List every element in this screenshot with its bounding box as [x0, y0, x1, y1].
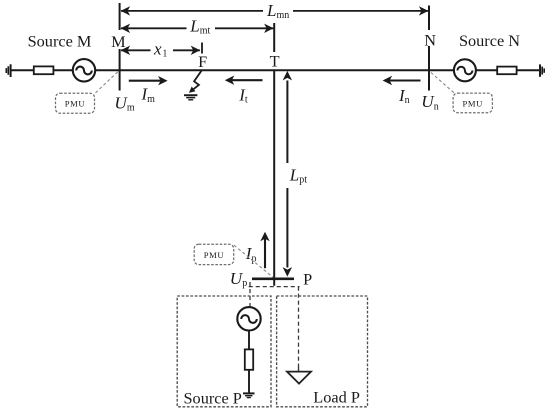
svg-text:PMU: PMU — [65, 99, 86, 109]
Load P dashed box — [277, 296, 368, 407]
tick T (dimension) — [273, 23, 275, 52]
svg-text:PMU: PMU — [462, 98, 483, 108]
ground left (source M side) — [6, 64, 10, 77]
svg-text:T: T — [270, 52, 280, 71]
current arrow I_t — [232, 79, 263, 81]
PMU box N — [453, 93, 492, 113]
bus bar N — [428, 6, 430, 31]
dimension L_pt — [286, 81, 288, 268]
dashed lead PMU M — [96, 71, 119, 93]
resistor (source M impedance) — [34, 66, 54, 74]
dashed lead PMU N — [430, 72, 454, 93]
wire source P lower — [248, 370, 250, 393]
bus bar P — [252, 277, 294, 280]
wire T-P tap line — [273, 70, 275, 286]
svg-text:Source M: Source M — [28, 32, 92, 51]
wire main bus M-N — [11, 69, 540, 71]
wire stub to load triangle — [298, 367, 300, 372]
PMU box P — [194, 244, 234, 264]
AC source symbol Source P — [237, 307, 260, 330]
dimension L_mt — [121, 27, 273, 29]
svg-text:PMU: PMU — [204, 250, 225, 260]
svg-text:Source N: Source N — [459, 31, 520, 50]
svg-text:F: F — [198, 52, 207, 71]
dimension L_mn — [121, 10, 428, 12]
Source P dashed box — [177, 296, 271, 407]
dashed connector bus P to loads — [249, 282, 300, 367]
dimension x1 (fault distance) — [121, 49, 200, 51]
fault lightning bolt at F — [189, 71, 202, 93]
ground right (source N side) — [540, 64, 544, 76]
tick F (fault point) — [201, 43, 203, 54]
svg-text:Source P: Source P — [184, 388, 242, 407]
fault ground — [184, 95, 197, 100]
svg-text:N: N — [424, 31, 436, 50]
svg-text:P: P — [303, 269, 312, 288]
svg-text:M: M — [111, 32, 125, 51]
AC source symbol Source N — [454, 59, 476, 81]
ground source P — [243, 393, 255, 397]
resistor (source P impedance) — [245, 349, 253, 369]
resistor (source N impedance) — [497, 67, 516, 75]
current arrow I_m — [129, 80, 161, 82]
wire source P upper — [248, 331, 250, 350]
current arrow I_p — [264, 239, 266, 269]
svg-text:Load P: Load P — [313, 388, 360, 407]
current arrow I_n — [389, 79, 420, 81]
dashed lead PMU P — [234, 245, 273, 277]
load symbol triangle — [287, 372, 311, 384]
PMU box M — [56, 93, 95, 113]
AC source symbol Source M — [73, 59, 95, 81]
bus bar M — [119, 3, 121, 30]
